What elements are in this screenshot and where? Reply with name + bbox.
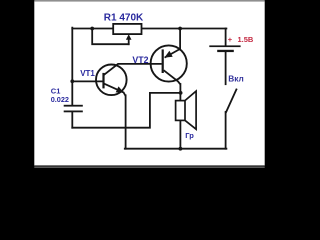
speaker horn	[185, 91, 196, 129]
wire: VT1 base wire	[72, 80, 102, 82]
wire: VT2 emitter riser to top rail	[179, 29, 181, 50]
VT1 emitter diagonal	[104, 83, 126, 96]
wire: battery to switch top contact	[225, 52, 227, 84]
resistor R1 body	[113, 24, 141, 34]
capacitor C1 plates	[64, 105, 83, 113]
battery negative short plate	[217, 50, 234, 52]
switch blade (open)	[226, 89, 237, 112]
junction node dots	[90, 27, 94, 31]
wire: left vertical rail down to C1	[71, 28, 73, 105]
wire: speaker top lead	[179, 84, 181, 101]
wire: C1 bottom lead	[71, 112, 73, 128]
VT2 emitter diagonal (to top)	[165, 49, 181, 58]
R1 wiper arrowhead	[126, 34, 132, 40]
svg-text:0.022: 0.022	[51, 95, 69, 104]
VT1 base bar	[102, 73, 104, 89]
svg-text:VT1: VT1	[80, 69, 95, 78]
speaker Гр	[176, 91, 197, 129]
wire: switch bottom lead	[225, 112, 227, 149]
black video background	[0, 0, 300, 168]
transistor VT2	[151, 45, 187, 84]
white schematic sheet	[34, 1, 264, 165]
wire: VT1 emitter drop to bottom rail	[125, 95, 127, 148]
R1 wiper stem	[128, 38, 130, 44]
svg-text:Вкл: Вкл	[228, 74, 244, 84]
svg-text:+: +	[228, 35, 233, 44]
wire: wiper loop down-left to top rail junction	[92, 29, 129, 45]
svg-text:Гр: Гр	[185, 131, 194, 140]
wire: battery feed from top rail	[225, 29, 227, 46]
wire: C1 to emitter-bus riser	[72, 93, 180, 128]
svg-text:R1 470K: R1 470K	[104, 13, 144, 24]
svg-text:VT2: VT2	[132, 55, 148, 65]
bottom dark edge line	[34, 165, 264, 167]
wire: speaker bottom lead	[179, 120, 181, 148]
battery GB1 plates	[209, 45, 240, 52]
VT1 collector diagonal to VT2 base	[103, 64, 162, 76]
battery positive long plate	[209, 45, 240, 47]
speaker frame rect	[176, 101, 185, 121]
VT2 emitter arrowhead (points to base: pnp)	[164, 51, 172, 58]
VT1 emitter arrowhead	[116, 86, 124, 92]
transistor VT1	[96, 64, 162, 96]
top grey edge line	[34, 0, 264, 2]
VT2 circle	[151, 45, 187, 81]
wire: bottom rail	[125, 148, 227, 150]
VT2 collector diagonal (to speaker)	[164, 70, 181, 84]
wire: top rail from left corner to battery corner	[72, 28, 226, 30]
svg-text:1.5В: 1.5В	[238, 35, 254, 44]
VT2 base bar	[162, 49, 164, 73]
VT1 circle	[96, 65, 127, 96]
